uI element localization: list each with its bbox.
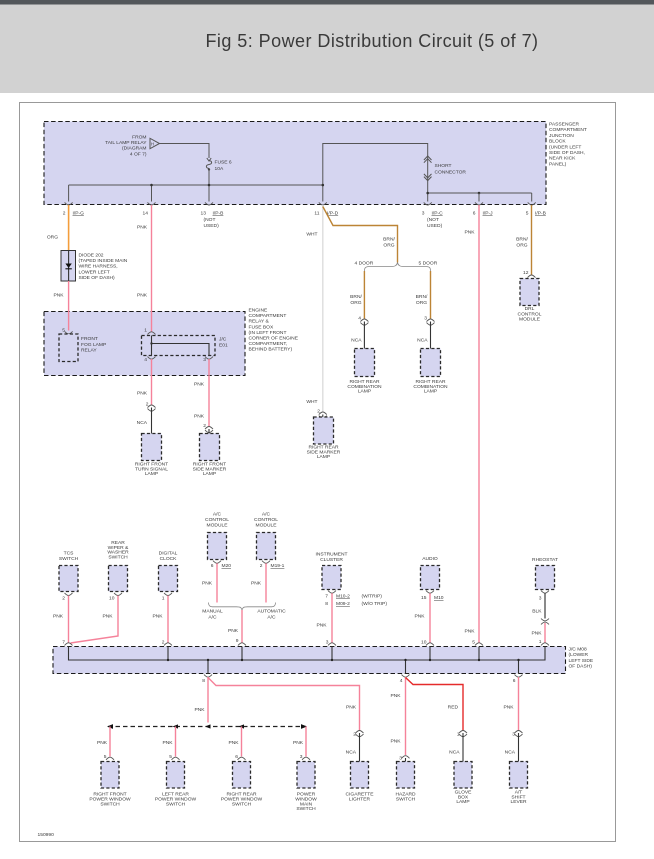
svg-text:CLOCK: CLOCK (160, 556, 178, 562)
svg-text:PNK: PNK (228, 740, 239, 746)
svg-text:CONNECTOR: CONNECTOR (435, 169, 467, 175)
svg-text:CORNER OF ENGINE: CORNER OF ENGINE (249, 336, 299, 342)
svg-text:LEFT SIDE: LEFT SIDE (569, 658, 594, 664)
svg-text:I/P-G: I/P-G (73, 211, 85, 217)
svg-text:10: 10 (109, 596, 115, 602)
svg-text:MANUAL: MANUAL (202, 609, 223, 615)
svg-text:5 DOOR: 5 DOOR (419, 261, 438, 267)
hazard switch (397, 762, 415, 789)
svg-text:I/P-B: I/P-B (535, 211, 546, 217)
svg-text:4: 4 (144, 357, 147, 363)
svg-text:PNK: PNK (97, 740, 108, 746)
svg-text:LOWER LEFT: LOWER LEFT (79, 269, 110, 275)
svg-text:PNK: PNK (202, 581, 213, 587)
svg-text:M09-2: M09-2 (336, 601, 350, 607)
front fog lamp relay (59, 334, 78, 362)
svg-text:PNK: PNK (346, 705, 357, 711)
svg-text:LAMP: LAMP (203, 471, 216, 477)
svg-text:ORG: ORG (47, 235, 58, 241)
wire BRN/ORG from pin 11 (323, 207, 398, 263)
svg-text:PNK: PNK (162, 740, 173, 746)
wire WHT pin11 down (322, 205, 324, 412)
svg-text:A/C: A/C (262, 512, 271, 518)
svg-text:SWITCH: SWITCH (396, 797, 416, 803)
svg-text:PNK: PNK (53, 293, 64, 299)
left rear power window switch (167, 762, 185, 789)
svg-text:FUSE 6: FUSE 6 (215, 160, 232, 166)
right rear combination lamp (left) (355, 349, 375, 377)
internal wire right section (428, 192, 532, 194)
svg-text:PNK: PNK (316, 623, 327, 629)
svg-text:DRL: DRL (525, 306, 535, 312)
svg-text:LIGHTER: LIGHTER (349, 797, 371, 803)
svg-text:PNK: PNK (137, 391, 148, 397)
svg-text:INSTRUMENT: INSTRUMENT (315, 552, 347, 558)
TCS switch (59, 551, 79, 562)
DRL control module (520, 279, 539, 306)
svg-text:RELAY: RELAY (81, 348, 97, 354)
svg-text:CONTROL: CONTROL (205, 517, 229, 523)
svg-text:PNK: PNK (390, 739, 401, 745)
right front side marker lamp (200, 434, 220, 461)
power window main switch (297, 762, 315, 789)
svg-text:NCA: NCA (351, 338, 362, 344)
svg-text:LAMP: LAMP (424, 389, 437, 395)
svg-text:PNK: PNK (228, 628, 239, 634)
short connector symbol (424, 156, 432, 160)
wire PNK pin 6 I/P-J long drop (478, 205, 480, 643)
svg-text:PNK: PNK (152, 614, 163, 620)
svg-text:SWITCH: SWITCH (232, 801, 252, 807)
svg-text:SIDE OF DASH): SIDE OF DASH) (79, 275, 116, 281)
svg-text:8: 8 (325, 601, 328, 607)
svg-text:PNK: PNK (53, 614, 64, 620)
wire BLK rheostat (544, 593, 546, 618)
svg-text:BRN/: BRN/ (350, 294, 362, 300)
svg-text:Fig 5: Power Distribution Circ: Fig 5: Power Distribution Circuit (5 of … (205, 31, 538, 51)
svg-text:TCS: TCS (64, 551, 75, 557)
svg-text:3: 3 (539, 596, 542, 602)
svg-text:6: 6 (513, 678, 516, 684)
wire ORG pin2 to diode (68, 205, 70, 251)
wire PNK J/C pin4 to turn signal (151, 359, 153, 405)
wire PNK diode to fog relay (68, 281, 70, 331)
svg-text:13: 13 (201, 211, 207, 217)
header gray band (0, 5, 654, 94)
wire PNK branch pin 8 to cigarette lighter (208, 678, 360, 731)
svg-text:LAMP: LAMP (456, 799, 469, 805)
svg-text:SWITCH: SWITCH (166, 801, 186, 807)
svg-text:BRN/: BRN/ (516, 237, 528, 243)
wire PNK pin14 down to J/C E01 (151, 205, 153, 332)
glove box lamp (454, 762, 472, 789)
svg-text:NCA: NCA (346, 750, 357, 756)
svg-text:MODULE: MODULE (256, 522, 278, 528)
svg-text:WIRE HARNESS,: WIRE HARNESS, (79, 264, 118, 270)
wire PNK drop right front window switch (109, 727, 111, 757)
pin cups bottom edge (65, 202, 73, 205)
wire PNK drop left rear window switch (175, 727, 177, 757)
svg-text:ENGINE: ENGINE (249, 308, 268, 314)
window switch distribution line (108, 726, 306, 728)
svg-text:MODULE: MODULE (519, 317, 541, 323)
svg-text:OF DASH): OF DASH) (569, 664, 593, 670)
svg-text:LAMP: LAMP (358, 389, 371, 395)
pin 6 I/P-J label (473, 211, 493, 217)
svg-text:NCA: NCA (417, 338, 428, 344)
svg-text:2: 2 (260, 563, 263, 569)
svg-text:SHORT: SHORT (435, 163, 452, 169)
4/5 door split brace (364, 263, 430, 272)
svg-text:PANEL): PANEL) (549, 161, 567, 167)
A/C control module 1 (205, 512, 229, 529)
svg-text:ORG: ORG (383, 243, 394, 249)
svg-text:9: 9 (236, 638, 239, 644)
svg-text:1: 1 (539, 639, 542, 645)
svg-text:BLK: BLK (532, 609, 542, 615)
wire PNK clock to bus pin 2 (167, 596, 169, 644)
right front power window switch (101, 762, 119, 789)
svg-text:3: 3 (424, 316, 427, 322)
pin 11 I/P-D label (314, 211, 338, 217)
svg-text:5: 5 (472, 640, 475, 646)
svg-text:PNK: PNK (531, 631, 542, 637)
bus internal wires (69, 647, 546, 661)
svg-text:USED): USED) (204, 223, 220, 229)
svg-text:PNK: PNK (194, 707, 205, 713)
svg-text:2: 2 (62, 596, 65, 602)
svg-text:BRN/: BRN/ (416, 294, 428, 300)
right rear combination lamp (right) (421, 349, 441, 377)
wire PNK merged to bus pin 9 (241, 610, 243, 643)
pin 2 I/P-G label (63, 211, 84, 217)
svg-text:M19-1: M19-1 (271, 563, 285, 569)
svg-text:RED: RED (448, 705, 459, 711)
svg-text:11: 11 (314, 211, 319, 217)
svg-text:PNK: PNK (137, 293, 148, 299)
svg-text:FROM: FROM (132, 134, 146, 140)
svg-text:LEVER: LEVER (510, 799, 527, 805)
A/C merge brace (209, 603, 276, 611)
svg-text:6: 6 (473, 211, 476, 217)
wire PNK hazard switch (405, 677, 407, 755)
svg-text:3: 3 (422, 211, 425, 217)
svg-text:10A: 10A (215, 166, 224, 172)
svg-text:(DIAGRAM: (DIAGRAM (122, 146, 146, 152)
wire PNK drop right rear window switch (241, 727, 243, 757)
svg-text:RELAY &: RELAY & (249, 319, 270, 325)
svg-text:FOG LAMP: FOG LAMP (81, 342, 106, 348)
wire drop pin 2 (68, 185, 70, 202)
wire drop pin 13 (208, 185, 210, 202)
svg-text:1: 1 (162, 596, 165, 602)
wire from triangle to fuse (160, 144, 210, 159)
wire PNK bus pin 6 to A/T shift lever (518, 677, 520, 731)
svg-text:BLOCK: BLOCK (549, 139, 566, 145)
svg-text:COMPARTMENT,: COMPARTMENT, (249, 341, 288, 347)
svg-text:PNK: PNK (503, 705, 514, 711)
svg-text:14: 14 (143, 211, 149, 217)
svg-text:5: 5 (62, 328, 65, 334)
svg-text:SWITCH: SWITCH (296, 806, 316, 812)
svg-text:A/C: A/C (267, 615, 276, 621)
wire riser at pin 11 (323, 144, 428, 202)
svg-text:SWITCH: SWITCH (59, 556, 79, 562)
wire PNK drop power window main switch (305, 727, 307, 757)
internal J/C wires (152, 336, 210, 356)
svg-text:SWITCH: SWITCH (100, 801, 120, 807)
svg-text:8: 8 (202, 678, 205, 684)
svg-text:(UNDER LEFT: (UNDER LEFT (549, 144, 581, 150)
svg-text:CLUSTER: CLUSTER (320, 557, 343, 563)
svg-text:SIDE OF DASH,: SIDE OF DASH, (549, 150, 585, 156)
svg-text:NCA: NCA (137, 420, 148, 426)
pin 5 I/P-B label (526, 211, 546, 217)
wire RED bus pin 4 to glove box lamp (406, 678, 464, 731)
svg-text:RHEOSTAT: RHEOSTAT (532, 557, 558, 563)
svg-text:DIODE 202: DIODE 202 (79, 253, 104, 259)
A/C control module 2 (254, 512, 278, 529)
svg-text:M20: M20 (222, 563, 232, 569)
svg-text:12: 12 (523, 270, 529, 276)
svg-text:LAMP: LAMP (145, 471, 158, 477)
svg-text:FRONT: FRONT (81, 336, 98, 342)
svg-text:2: 2 (63, 211, 66, 217)
svg-text:DIGITAL: DIGITAL (159, 551, 178, 557)
svg-text:7: 7 (325, 594, 328, 600)
diode 202 (61, 251, 76, 282)
top dark bar (0, 0, 654, 5)
cigarette lighter (351, 762, 369, 789)
svg-text:PNK: PNK (194, 414, 205, 420)
svg-text:COMPARTMENT: COMPARTMENT (549, 127, 587, 133)
wire drop pin 14 (151, 185, 153, 202)
svg-text:AUTOMATIC: AUTOMATIC (257, 609, 286, 615)
A/T shift lever (510, 762, 528, 789)
wire drop pin 5 (531, 193, 533, 202)
svg-text:(NOT: (NOT (204, 217, 216, 223)
svg-text:WHT: WHT (306, 399, 317, 405)
svg-text:A/C: A/C (208, 615, 217, 621)
automatic a/c label (257, 609, 286, 621)
svg-text:PNK: PNK (390, 693, 401, 699)
diagram frame (20, 103, 616, 842)
svg-text:NCA: NCA (505, 750, 516, 756)
svg-text:PNK: PNK (293, 740, 304, 746)
svg-text:PASSENGER: PASSENGER (549, 122, 580, 128)
wire PNK A/C1 to brace (216, 563, 218, 602)
svg-text:FUSE BOX: FUSE BOX (249, 324, 274, 330)
wire PNK J/C pin3 to side marker (208, 359, 210, 426)
right front turn signal lamp (142, 434, 162, 461)
svg-text:J/C M08: J/C M08 (569, 647, 587, 653)
svg-text:LAMP: LAMP (317, 454, 330, 460)
svg-text:PNK: PNK (137, 225, 148, 231)
svg-text:10: 10 (421, 640, 427, 646)
svg-text:(W/O TRIP): (W/O TRIP) (362, 601, 388, 607)
svg-text:4 OF 7): 4 OF 7) (130, 151, 147, 157)
wire PNK rheostat to bus pin 1 (544, 623, 546, 643)
svg-text:I/P-D: I/P-D (327, 211, 339, 217)
inline connector (541, 619, 549, 621)
internal bus wire (69, 184, 323, 186)
svg-text:E01: E01 (219, 342, 228, 348)
svg-text:ORG: ORG (416, 300, 427, 306)
svg-text:USED): USED) (427, 223, 443, 229)
svg-text:(TAPED INSIDE MAIN: (TAPED INSIDE MAIN (79, 258, 128, 264)
wire BRN/ORG pin 5 to DRL (531, 205, 533, 276)
svg-text:PNK: PNK (251, 581, 262, 587)
svg-text:PNK: PNK (414, 614, 425, 620)
svg-text:TAIL LAMP RELAY: TAIL LAMP RELAY (105, 140, 147, 146)
wire drop pin 6 (478, 193, 480, 202)
svg-text:(LOWER: (LOWER (569, 652, 589, 658)
pin 13 I/P-B (not used) label (201, 211, 224, 230)
svg-text:H: H (151, 142, 154, 147)
svg-text:BEHIND BATTERY): BEHIND BATTERY) (249, 347, 293, 353)
svg-text:5: 5 (526, 211, 529, 217)
svg-text:4 DOOR: 4 DOOR (355, 261, 374, 267)
svg-text:COMPARTMENT: COMPARTMENT (249, 313, 287, 319)
svg-text:PNK: PNK (102, 614, 113, 620)
rear wiper and washer switch (107, 540, 129, 560)
J/C E01 junction connector (142, 336, 216, 356)
svg-text:SWITCH: SWITCH (108, 554, 128, 560)
svg-text:A/C: A/C (213, 512, 222, 518)
svg-text:PNK: PNK (194, 382, 205, 388)
instrument cluster (315, 552, 347, 563)
pin 3 I/P-C (not used) label (422, 211, 443, 230)
manual a/c label (202, 609, 223, 621)
J/C M08 bus bar (53, 647, 566, 674)
svg-text:1: 1 (144, 328, 147, 334)
svg-text:M10: M10 (434, 595, 444, 601)
svg-text:(IN LEFT FRONT: (IN LEFT FRONT (249, 330, 287, 336)
tail lamp relay buffer triangle (150, 138, 160, 148)
wire PNK audio to bus pin 10 (429, 593, 431, 643)
svg-text:AUDIO: AUDIO (422, 556, 438, 562)
svg-text:PNK: PNK (464, 230, 475, 236)
svg-text:JUNCTION: JUNCTION (549, 133, 574, 139)
svg-text:MODULE: MODULE (207, 522, 229, 528)
svg-text:I/P-C: I/P-C (432, 211, 444, 217)
svg-text:6: 6 (211, 563, 214, 569)
wire PNK TCS to bus pin 7 (68, 596, 70, 644)
svg-text:NEAR KICK: NEAR KICK (549, 156, 576, 162)
svg-text:150990: 150990 (38, 832, 55, 838)
junction block label (549, 122, 587, 168)
svg-text:I/P-B: I/P-B (213, 211, 224, 217)
wire BRN/ORG left door drop (363, 271, 365, 319)
digital clock (159, 551, 178, 562)
svg-text:I/P-J: I/P-J (483, 211, 494, 217)
svg-text:WHT: WHT (306, 232, 317, 238)
svg-text:J/C: J/C (219, 337, 227, 343)
svg-text:M10-2: M10-2 (336, 594, 350, 600)
passenger compartment junction block (44, 122, 546, 205)
engine compartment relay and fuse box (44, 312, 245, 376)
svg-text:CONTROL: CONTROL (254, 517, 278, 523)
fuse 6 symbol (207, 158, 211, 161)
wire PNK instrument cluster to bus pin 3 (331, 593, 333, 643)
svg-text:15: 15 (421, 595, 427, 601)
svg-text:(W/TRIP): (W/TRIP) (362, 594, 383, 600)
wire BRN/ORG right door drop (430, 271, 432, 319)
from tail lamp relay label (105, 134, 147, 157)
wire PNK wiper to bus pin 7 (71, 596, 119, 644)
svg-text:ORG: ORG (350, 300, 361, 306)
right rear side marker lamp (314, 417, 334, 444)
wire PNK bus pin 8 down (207, 677, 209, 723)
right rear power window switch (233, 762, 251, 789)
svg-text:(NOT: (NOT (427, 217, 439, 223)
svg-text:4: 4 (400, 678, 403, 684)
svg-text:CONTROL: CONTROL (518, 311, 542, 317)
svg-text:ORG: ORG (516, 243, 527, 249)
svg-text:NCA: NCA (449, 750, 460, 756)
svg-text:BRN/: BRN/ (383, 237, 395, 243)
wire PNK A/C2 to brace (265, 563, 267, 602)
fuse label (215, 160, 232, 172)
svg-text:PNK: PNK (464, 629, 475, 635)
